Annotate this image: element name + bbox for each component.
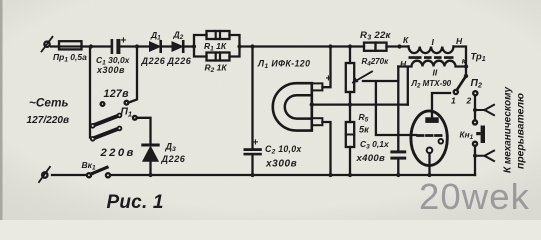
svg-text:прерывателю: прерывателю [516, 93, 527, 169]
wire R5 down [349, 105, 351, 122]
svg-text:Н: Н [456, 36, 463, 46]
svg-text:127/220в: 127/220в [27, 115, 70, 126]
connector fork 1 [475, 105, 494, 115]
bottom rail [52, 174, 475, 176]
wire winding I right down [454, 47, 467, 76]
svg-text:II: II [433, 68, 438, 78]
capacitor C1 [111, 39, 121, 54]
diode D2 [172, 41, 183, 51]
transformer core dashes [409, 56, 454, 59]
scan edge strip [0, 0, 3, 220]
wire to node K [387, 45, 409, 47]
button Kn1 contacts [473, 120, 477, 146]
svg-text:Рис. 1: Рис. 1 [107, 192, 164, 213]
transformer winding I [409, 47, 454, 54]
resistor R3 [364, 43, 387, 51]
svg-text:+: + [121, 36, 127, 47]
thyratron L2 envelope [411, 111, 447, 166]
diode D3 [143, 145, 158, 175]
node cathode bottom [427, 173, 431, 177]
L2 cathode [427, 148, 433, 176]
svg-text:х400в: х400в [356, 153, 386, 164]
wire lamp anode up [322, 47, 330, 88]
node C3 bottom [396, 173, 400, 177]
wire grid link vertical [363, 81, 416, 135]
wire C2 branch [251, 47, 253, 149]
connector fork 2 [475, 151, 494, 161]
svg-text:20wek: 20wek [419, 176, 530, 217]
svg-text:127в: 127в [104, 88, 130, 100]
svg-text:К: К [403, 35, 409, 45]
svg-text:Д226: Д226 [141, 56, 166, 66]
parallel block frame R1R2 [194, 35, 240, 57]
svg-text:R1 1К: R1 1К [204, 41, 227, 53]
flash lamp L1 outer [273, 83, 312, 130]
svg-text:R2 1К: R2 1К [205, 63, 228, 75]
switch P1 contacts row [101, 101, 129, 106]
svg-text:+: + [253, 138, 259, 149]
wire [162, 45, 173, 47]
node trigger R4R5 [348, 103, 352, 107]
svg-text:1: 1 [451, 96, 456, 106]
contact 2 [473, 91, 477, 95]
lamp electrode top [312, 83, 323, 90]
node C1/P1 [135, 44, 139, 48]
wire P1 left vertical [89, 47, 91, 138]
resistor R1 [207, 31, 230, 39]
transformer winding II [398, 61, 466, 67]
node P2 pivot [464, 74, 468, 78]
terminal bottom-left [39, 167, 50, 182]
svg-text:х300в: х300в [96, 65, 125, 75]
svg-text:Пр1 0,5а: Пр1 0,5а [53, 52, 87, 64]
wire [184, 45, 194, 47]
svg-text:х300в: х300в [265, 159, 297, 170]
svg-text:R4270к: R4270к [362, 57, 390, 67]
wire P1 right vertical [129, 47, 137, 103]
wire lamp bottom down [322, 122, 330, 175]
wire top rail left [51, 45, 111, 47]
node fork1 [473, 108, 477, 112]
svg-text:5к: 5к [359, 125, 370, 135]
switch Vk1 [87, 167, 110, 177]
svg-text:+: + [326, 74, 332, 85]
terminal top-left [42, 37, 53, 52]
svg-text:Д226: Д226 [161, 154, 186, 164]
wire trigger line [312, 103, 408, 105]
L2 aux electrode [439, 139, 444, 144]
switch P2 lever [454, 76, 466, 94]
wire R4 branch [349, 47, 351, 64]
button Kn1 bar [476, 126, 485, 144]
svg-text:C3 0,1х: C3 0,1х [360, 139, 390, 151]
svg-text:К механическому: К механическому [503, 87, 514, 174]
switch P1 bar B [91, 126, 122, 140]
diode D1 [150, 41, 161, 51]
wire right column [474, 95, 476, 120]
node K [397, 44, 401, 48]
node R1R2 right [237, 44, 241, 48]
L2 anode [426, 93, 450, 122]
L2 grid [418, 134, 442, 137]
wire winding II lead down to C3 [398, 67, 408, 151]
node lamp top [328, 44, 332, 48]
svg-text:Н: Н [400, 59, 407, 69]
svg-text:П2: П2 [471, 78, 483, 90]
node C2 bottom [250, 173, 254, 177]
capacitor C2 [244, 148, 262, 155]
svg-text:Л2 МТХ-90: Л2 МТХ-90 [411, 79, 452, 89]
resistor R5 [346, 122, 354, 147]
svg-text:R3 22к: R3 22к [360, 30, 392, 42]
node fork2 [473, 154, 477, 158]
wire [121, 45, 151, 47]
svg-text:Д226: Д226 [167, 56, 192, 66]
node lamp trigger [310, 102, 314, 106]
node winding II K [464, 64, 468, 68]
node lamp bottom [328, 173, 332, 177]
wire top rail mid [240, 45, 365, 47]
node R1R2 left [192, 44, 196, 48]
node R4 top [348, 44, 352, 48]
svg-text:C2 10,0х: C2 10,0х [265, 144, 302, 156]
node fuse/P1 [89, 44, 93, 48]
svg-text:~Сеть: ~Сеть [29, 96, 68, 110]
lamp electrode bottom [312, 118, 323, 125]
svg-text:220в: 220в [100, 147, 136, 159]
node R5 bottom [348, 173, 352, 177]
R4 arrow [352, 72, 372, 84]
flash lamp L1 inner [285, 95, 312, 118]
resistor R2 [207, 53, 230, 61]
node C2 top [250, 44, 254, 48]
resistor R4 [346, 63, 354, 92]
fuse Pr1 [59, 41, 82, 49]
svg-text:2: 2 [466, 96, 472, 106]
capacitor C3 [390, 150, 406, 159]
node D3 bottom [148, 173, 152, 177]
contact P1 to D3 [133, 116, 151, 144]
switch P1 bar A [91, 114, 122, 128]
